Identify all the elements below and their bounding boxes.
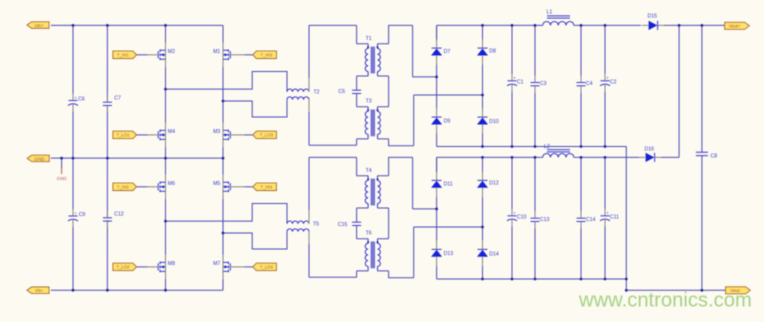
svg-text:T_HI2: T_HI2 (117, 185, 129, 190)
svg-text:L2: L2 (544, 144, 550, 150)
svg-text:M6: M6 (168, 181, 175, 187)
svg-text:D14: D14 (489, 252, 499, 258)
svg-text:Vin-: Vin- (35, 288, 44, 294)
svg-text:C9: C9 (79, 212, 86, 218)
svg-text:D16: D16 (645, 147, 655, 153)
svg-text:C5: C5 (338, 89, 345, 95)
svg-text:D12: D12 (489, 181, 499, 187)
svg-text:M3: M3 (213, 129, 220, 135)
svg-text:D15: D15 (648, 14, 658, 20)
svg-text:D11: D11 (444, 182, 453, 188)
svg-text:C14: C14 (586, 217, 596, 223)
svg-text:C15: C15 (338, 222, 348, 228)
svg-text:C3: C3 (540, 81, 547, 87)
svg-text:C7: C7 (114, 96, 121, 102)
svg-text:D8: D8 (489, 49, 496, 55)
svg-text:GND: GND (34, 156, 45, 162)
svg-text:M1: M1 (213, 49, 220, 55)
svg-text:C8: C8 (711, 154, 718, 160)
svg-text:T_HI3: T_HI3 (261, 53, 273, 58)
svg-text:C6: C6 (78, 97, 85, 103)
svg-text:L1: L1 (547, 10, 553, 16)
svg-text:T1: T1 (366, 36, 372, 42)
svg-text:D10: D10 (489, 119, 499, 125)
svg-text:T_LO3: T_LO3 (260, 133, 274, 138)
svg-text:C2: C2 (610, 79, 617, 85)
svg-text:Vout+: Vout+ (729, 24, 741, 29)
svg-text:T_HI4: T_HI4 (261, 185, 273, 190)
svg-text:C13: C13 (540, 217, 550, 223)
svg-text:T_LO1: T_LO1 (116, 133, 130, 138)
svg-text:C11: C11 (610, 214, 619, 220)
svg-text:M2: M2 (168, 49, 175, 55)
svg-text:M8: M8 (168, 261, 175, 267)
svg-text:M4: M4 (168, 129, 175, 135)
svg-text:C12: C12 (114, 211, 124, 217)
svg-text:D7: D7 (444, 49, 451, 55)
svg-text:T3: T3 (366, 99, 372, 105)
svg-text:T_LO2: T_LO2 (116, 265, 130, 270)
svg-text:M7: M7 (213, 261, 220, 267)
svg-text:T_HI1: T_HI1 (117, 53, 129, 58)
svg-text:M5: M5 (213, 181, 220, 187)
svg-text:T6: T6 (366, 231, 372, 237)
svg-text:C4: C4 (586, 81, 593, 87)
svg-text:GND: GND (57, 176, 68, 181)
svg-text:C10: C10 (517, 214, 527, 220)
svg-text:C1: C1 (517, 79, 524, 85)
svg-text:T_LO4: T_LO4 (260, 265, 274, 270)
svg-text:www.cntronics.com: www.cntronics.com (578, 290, 752, 312)
svg-text:T5: T5 (313, 222, 319, 228)
svg-text:Vin+: Vin+ (34, 23, 44, 29)
svg-text:T2: T2 (314, 90, 320, 96)
svg-text:D13: D13 (444, 251, 454, 257)
svg-text:T4: T4 (366, 168, 372, 174)
svg-text:D9: D9 (444, 119, 451, 125)
